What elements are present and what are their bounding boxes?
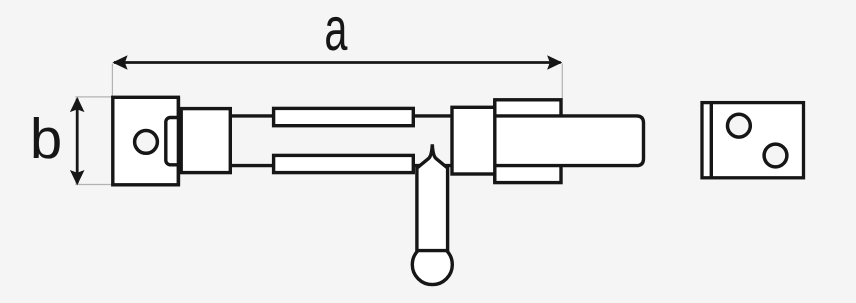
svg-text:b: b [30,108,62,171]
svg-text:a: a [324,0,347,64]
